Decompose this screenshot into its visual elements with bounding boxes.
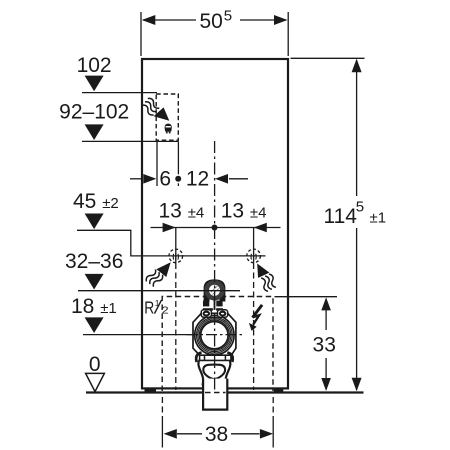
svg-text:5: 5 bbox=[356, 199, 364, 216]
svg-text:±1: ±1 bbox=[370, 210, 387, 227]
svg-text:50: 50 bbox=[200, 10, 223, 33]
svg-text:1: 1 bbox=[155, 298, 160, 308]
svg-text:33: 33 bbox=[313, 334, 336, 357]
svg-text:32–36: 32–36 bbox=[65, 250, 123, 273]
svg-text:6: 6 bbox=[159, 168, 171, 191]
svg-text:102: 102 bbox=[77, 54, 112, 77]
svg-text:0: 0 bbox=[89, 353, 101, 376]
svg-text:114: 114 bbox=[324, 205, 358, 228]
svg-text:R: R bbox=[144, 297, 154, 317]
svg-text:2: 2 bbox=[162, 306, 169, 317]
svg-text:92–102: 92–102 bbox=[59, 100, 129, 123]
svg-text:12: 12 bbox=[186, 168, 209, 191]
svg-text:38: 38 bbox=[205, 423, 228, 446]
svg-text:5: 5 bbox=[224, 8, 232, 25]
